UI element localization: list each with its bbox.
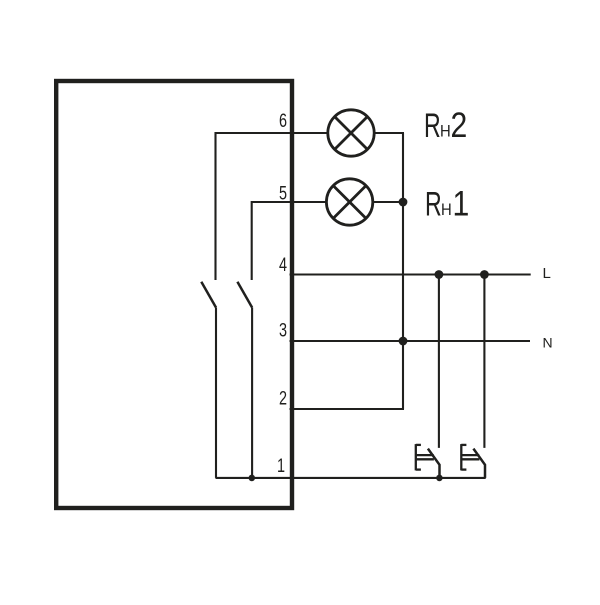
node: junction dot bus / N line bbox=[399, 337, 408, 346]
svg-text:H: H bbox=[441, 201, 452, 219]
wire: terminal 1 line to push buttons bbox=[216, 477, 486, 479]
node: junction dot bus / lamp RH1 lead bbox=[399, 198, 408, 207]
svg-text:2: 2 bbox=[279, 386, 287, 409]
switch S2 blade (internal contact, open) bbox=[237, 282, 252, 308]
node: junction dot S2 lead / wire 1 bbox=[249, 475, 256, 482]
wire: push button S4 fixed lead from L line bbox=[483, 275, 485, 448]
device box U1 (dimmer unit outline) bbox=[56, 81, 292, 508]
svg-text:5: 5 bbox=[279, 181, 287, 204]
wire: terminal 4 line to L bbox=[290, 273, 531, 275]
svg-text:4: 4 bbox=[279, 253, 287, 276]
wire: push button S3 fixed lead from L line bbox=[438, 275, 440, 448]
svg-text:3: 3 bbox=[279, 318, 287, 341]
lamp E1 circle (load RH1) bbox=[326, 179, 372, 225]
svg-text:1: 1 bbox=[453, 183, 470, 223]
svg-text:R: R bbox=[425, 185, 442, 224]
push button S4 blade and bottom lead bbox=[473, 449, 485, 478]
wire: lamp RH2 right lead to bus bbox=[374, 132, 404, 134]
push button S4 actuator cap bbox=[461, 444, 479, 470]
lamp E1 cross stroke 2 bbox=[333, 186, 366, 219]
wire: lamp RH1 right lead to bus bbox=[373, 201, 403, 203]
wire: lamp return bus (vertical, RH2 right down to terminal 2 line) bbox=[402, 133, 404, 409]
wire: switch S2 top lead up to terminal 5 and out to lamp RH1 bbox=[252, 202, 327, 280]
push button S3 actuator cap bbox=[416, 444, 434, 470]
svg-text:L: L bbox=[543, 265, 551, 282]
lamp E1 cross stroke 1 bbox=[333, 186, 366, 219]
wire: terminal 2 line to lamp return bus bbox=[290, 408, 405, 410]
label RH2 (load 2 designator) bbox=[424, 105, 467, 146]
svg-text:H: H bbox=[440, 123, 451, 141]
lamp E2 circle (load RH2) bbox=[328, 110, 374, 156]
svg-text:1: 1 bbox=[277, 454, 285, 477]
label RH1 (load 1 designator) bbox=[425, 183, 469, 224]
lamp E2 cross stroke 2 bbox=[335, 117, 368, 150]
svg-text:2: 2 bbox=[451, 105, 468, 145]
wire: switch S2 bottom lead down to line 1 bbox=[251, 308, 253, 478]
wire: switch S1 top lead up to terminal 6 and out to lamp RH2 bbox=[216, 133, 328, 280]
node: junction dot L line / S4 lead bbox=[480, 270, 489, 279]
node: junction dot S3 / wire 1 bbox=[436, 475, 443, 482]
wire: switch S1 bottom lead down to line 1 bbox=[215, 308, 217, 478]
wire: terminal 3 line to N bbox=[290, 340, 531, 342]
svg-text:R: R bbox=[424, 106, 441, 145]
node: junction dot L line / S3 lead bbox=[435, 270, 444, 279]
push button S3 blade and bottom lead bbox=[428, 449, 440, 478]
switch S1 blade (internal contact, open) bbox=[201, 282, 216, 308]
svg-text:6: 6 bbox=[279, 109, 287, 132]
lamp E2 cross stroke 1 bbox=[335, 117, 368, 150]
svg-text:N: N bbox=[543, 335, 553, 351]
